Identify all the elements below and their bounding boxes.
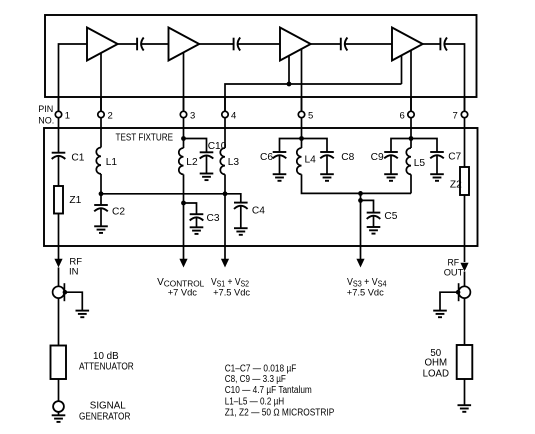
ground under C2 xyxy=(94,226,108,233)
svg-text:C5: C5 xyxy=(384,211,397,222)
svg-text:1: 1 xyxy=(65,110,70,121)
inductor L2 xyxy=(179,148,198,174)
op-amp stage A3 xyxy=(280,28,311,61)
svg-text:SIGNAL: SIGNAL xyxy=(90,401,126,412)
wire pin7 to Z2 xyxy=(464,128,466,167)
wire tap to C3 xyxy=(184,203,197,214)
node C5 tap xyxy=(358,198,363,203)
capacitor C9 xyxy=(371,152,398,163)
svg-text:C1–C7 — 0.018 µF: C1–C7 — 0.018 µF xyxy=(225,363,297,374)
wire supply node to fixture edge xyxy=(360,193,362,246)
svg-text:L5: L5 xyxy=(414,158,426,169)
svg-text:Z1: Z1 xyxy=(69,195,81,206)
svg-text:Z2: Z2 xyxy=(450,180,462,191)
wire pin3 to node xyxy=(183,128,185,139)
wire connector shield to ground xyxy=(440,292,458,310)
wire A4 bottom to bias line xyxy=(401,55,403,84)
wire and ground under signal generator xyxy=(52,412,66,422)
wire C1 to Z1 xyxy=(58,156,60,186)
RF OUT feed wire with arrow xyxy=(460,246,468,286)
wire node to C6 xyxy=(280,139,302,153)
wire pin4 column to fixture edge xyxy=(224,194,226,246)
capacitor C8 xyxy=(320,152,354,163)
pin 3 xyxy=(180,97,195,129)
wire L5 top stub xyxy=(410,139,412,149)
wire A2 output to cap xyxy=(199,43,233,45)
wire node to C4 xyxy=(225,194,241,203)
wire A3 output side to pin5 xyxy=(301,49,303,111)
wire L4 top stub xyxy=(301,139,303,149)
wire pin2 to L1 xyxy=(100,128,102,148)
label VS1 + VS2 +7.5 Vdc xyxy=(211,277,250,297)
wire L1 to node xyxy=(100,174,102,194)
svg-text:L1: L1 xyxy=(106,157,118,168)
label VCONTROL +7 Vdc xyxy=(157,277,205,297)
svg-text:6: 6 xyxy=(400,110,405,121)
50 ohm load box xyxy=(457,345,473,379)
ground under C9 xyxy=(384,174,398,181)
RF OUT coax connector xyxy=(456,283,471,301)
label PIN NO. xyxy=(38,104,54,125)
svg-text:LOAD: LOAD xyxy=(423,368,449,379)
wire Z2 to fixture edge xyxy=(464,195,466,246)
microstrip Z1 xyxy=(54,186,82,214)
svg-text:C1: C1 xyxy=(71,152,84,163)
wire C5 to ground xyxy=(373,216,375,227)
wire tap to C5 xyxy=(361,200,374,212)
wire A4 output to cap xyxy=(423,43,441,45)
ground under C6 xyxy=(273,174,287,181)
inductor L5 xyxy=(406,148,425,174)
node L3/bias junction xyxy=(223,191,228,196)
wire A4 output side to pin6 xyxy=(410,50,412,111)
label RF IN xyxy=(69,256,82,277)
ground under C8 xyxy=(320,174,334,181)
svg-text:10 dB: 10 dB xyxy=(93,351,119,362)
internal coupling capacitor between A1 and A2 xyxy=(137,38,144,51)
wire A1 output to cap xyxy=(118,43,137,45)
wire and ground under load xyxy=(458,379,472,412)
ground under C3 xyxy=(190,227,204,234)
pin 7 xyxy=(453,97,468,129)
RF IN feed wire with arrow xyxy=(54,246,62,286)
capacitor C10 xyxy=(200,141,227,159)
svg-text:2: 2 xyxy=(108,110,113,121)
wire L5 bottom to supply net xyxy=(410,174,412,193)
svg-text:L2: L2 xyxy=(186,157,198,168)
wire C7 to ground xyxy=(436,155,438,174)
node C3 tap xyxy=(181,201,186,206)
wire node to L2 xyxy=(183,139,185,149)
VS3+VS4 feed wire with arrow xyxy=(356,246,364,268)
microstrip Z2 xyxy=(450,167,469,195)
op-amp stage A2 xyxy=(169,28,200,61)
node pin5 tank junction xyxy=(299,136,304,141)
signal generator source symbol xyxy=(53,401,64,412)
svg-text:+7 Vdc: +7 Vdc xyxy=(168,287,198,297)
test fixture outline box xyxy=(44,128,478,246)
svg-text:OHM: OHM xyxy=(424,357,447,368)
node L1/C2 junction xyxy=(99,191,104,196)
node supply/C5 junction xyxy=(358,191,363,196)
VCONTROL feed wire with arrow xyxy=(179,246,187,268)
svg-text:PIN: PIN xyxy=(38,104,53,114)
wire cap to A2 input xyxy=(142,43,169,45)
svg-text:IN: IN xyxy=(69,267,79,278)
node pin3/C10 tap xyxy=(181,136,186,141)
wire C6 to ground xyxy=(279,155,281,174)
svg-text:+7.5 Vdc: +7.5 Vdc xyxy=(213,287,250,297)
ground at RF IN connector xyxy=(76,311,90,318)
svg-text:C8: C8 xyxy=(341,152,354,163)
wire A1 bottom to pin2 xyxy=(100,53,102,111)
svg-text:NO.: NO. xyxy=(38,115,54,125)
IC package outline box U1 xyxy=(45,15,477,97)
wire pin6 to node xyxy=(410,128,412,139)
ground under C7 xyxy=(430,174,444,181)
wire C4 to ground xyxy=(240,206,242,228)
wire Z1 to fixture edge xyxy=(58,214,60,247)
wire node to C2 xyxy=(100,194,102,205)
svg-text:C10: C10 xyxy=(208,141,227,152)
inductor L4 xyxy=(297,148,316,174)
svg-text:L4: L4 xyxy=(305,154,317,165)
label TEST FIXTURE xyxy=(116,133,174,144)
wire L3 to node xyxy=(224,174,226,193)
wire C10 to ground xyxy=(206,156,208,174)
svg-text:C7: C7 xyxy=(448,151,461,162)
RF IN coax connector xyxy=(53,283,68,301)
wire pin3 column to fixture edge xyxy=(183,203,185,246)
svg-text:C3: C3 xyxy=(207,213,220,224)
pin 6 xyxy=(400,97,415,129)
svg-text:5: 5 xyxy=(308,110,313,121)
capacitor C3 xyxy=(190,213,220,224)
svg-text:+7.5 Vdc: +7.5 Vdc xyxy=(347,287,384,297)
pin 1 xyxy=(55,97,70,129)
svg-text:Z1, Z2 — 50 Ω MICROSTRIP: Z1, Z2 — 50 Ω MICROSTRIP xyxy=(225,408,335,419)
capacitor C4 xyxy=(234,203,265,217)
svg-text:C4: C4 xyxy=(252,206,265,217)
node junction under A3 xyxy=(287,82,292,87)
node pin6 tank junction xyxy=(409,136,414,141)
label 10 dB ATTENUATOR xyxy=(79,351,134,373)
wire A2 bottom to pin3 xyxy=(183,52,185,111)
inductor L3 xyxy=(220,148,239,174)
wire connector to load xyxy=(464,298,466,345)
wire C2 to ground xyxy=(100,208,102,226)
pin 2 xyxy=(98,97,113,129)
wire A3 output to cap xyxy=(311,43,341,45)
wire tap to C10 xyxy=(184,139,207,153)
label 50 OHM LOAD xyxy=(423,348,449,379)
svg-text:4: 4 xyxy=(231,110,236,121)
wire node to C7 xyxy=(411,139,437,153)
svg-text:ATTENUATOR: ATTENUATOR xyxy=(79,362,134,373)
wire cap to A3 input xyxy=(238,43,280,45)
op-amp stage A1 xyxy=(87,28,118,61)
bias wire pin4 to A4 xyxy=(225,84,402,111)
wire attenuator to signal generator xyxy=(58,379,60,401)
wire C2 node to pin4 node xyxy=(101,193,225,195)
wire A3 bottom to bias node xyxy=(288,56,290,84)
ground under C4 xyxy=(234,228,248,235)
svg-text:C10 — 4.7 µF Tantalum: C10 — 4.7 µF Tantalum xyxy=(225,385,312,396)
wire C9 to ground xyxy=(390,155,392,174)
wire node to C9 xyxy=(391,139,411,153)
internal coupling capacitor between A2 and A3 xyxy=(234,38,241,51)
wire cap to pin7 riser xyxy=(445,44,465,111)
wire node to C8 xyxy=(302,139,328,153)
wire pin1 into fixture xyxy=(58,128,60,153)
svg-text:OUT: OUT xyxy=(444,267,464,278)
notes: component values list xyxy=(225,363,335,418)
svg-text:C9: C9 xyxy=(371,152,384,163)
svg-text:TEST FIXTURE: TEST FIXTURE xyxy=(116,133,174,144)
ground under C10 xyxy=(200,174,214,181)
svg-text:C8, C9 — 3.3 µF: C8, C9 — 3.3 µF xyxy=(225,374,286,385)
wire connector shield to ground xyxy=(65,292,82,310)
label RF OUT xyxy=(444,258,464,279)
wire L2 down to C3 node xyxy=(183,174,185,203)
wire C3 to ground xyxy=(196,217,198,227)
VS1+VS2 feed wire with arrow xyxy=(221,246,229,268)
pin 4 xyxy=(222,97,236,129)
svg-text:L1–L5 — 0.2 µH: L1–L5 — 0.2 µH xyxy=(225,397,285,408)
wire pin5 to node xyxy=(301,128,303,139)
internal coupling capacitor after A4 xyxy=(440,38,447,51)
svg-text:C6: C6 xyxy=(260,152,273,163)
svg-text:C2: C2 xyxy=(112,207,125,218)
wire C8 to ground xyxy=(326,155,328,174)
svg-text:3: 3 xyxy=(190,110,195,121)
ground at RF OUT connector xyxy=(433,311,447,318)
wire pin1 riser to A1 input xyxy=(59,44,88,111)
attenuator AT1 box xyxy=(51,346,67,380)
label VS3 + VS4 +7.5 Vdc xyxy=(347,277,387,297)
pin 5 xyxy=(298,97,313,129)
capacitor C2 xyxy=(94,205,125,218)
wire pin4 to L3 xyxy=(224,128,226,148)
svg-text:L3: L3 xyxy=(228,157,240,168)
internal coupling capacitor between A3 and A4 xyxy=(341,38,348,51)
label SIGNAL GENERATOR xyxy=(79,401,130,423)
capacitor C1 xyxy=(52,152,85,163)
capacitor C5 xyxy=(367,211,398,222)
inductor L1 xyxy=(96,148,117,174)
svg-text:7: 7 xyxy=(453,110,458,121)
capacitor C7 xyxy=(430,151,461,162)
ground under C5 xyxy=(367,227,381,234)
wire cap to A4 input xyxy=(345,43,392,45)
wire L4 bottom to supply net xyxy=(302,174,412,193)
svg-text:GENERATOR: GENERATOR xyxy=(79,412,130,423)
op-amp stage A4 xyxy=(392,28,423,61)
wire connector to attenuator xyxy=(58,298,60,345)
capacitor C6 xyxy=(260,152,286,163)
